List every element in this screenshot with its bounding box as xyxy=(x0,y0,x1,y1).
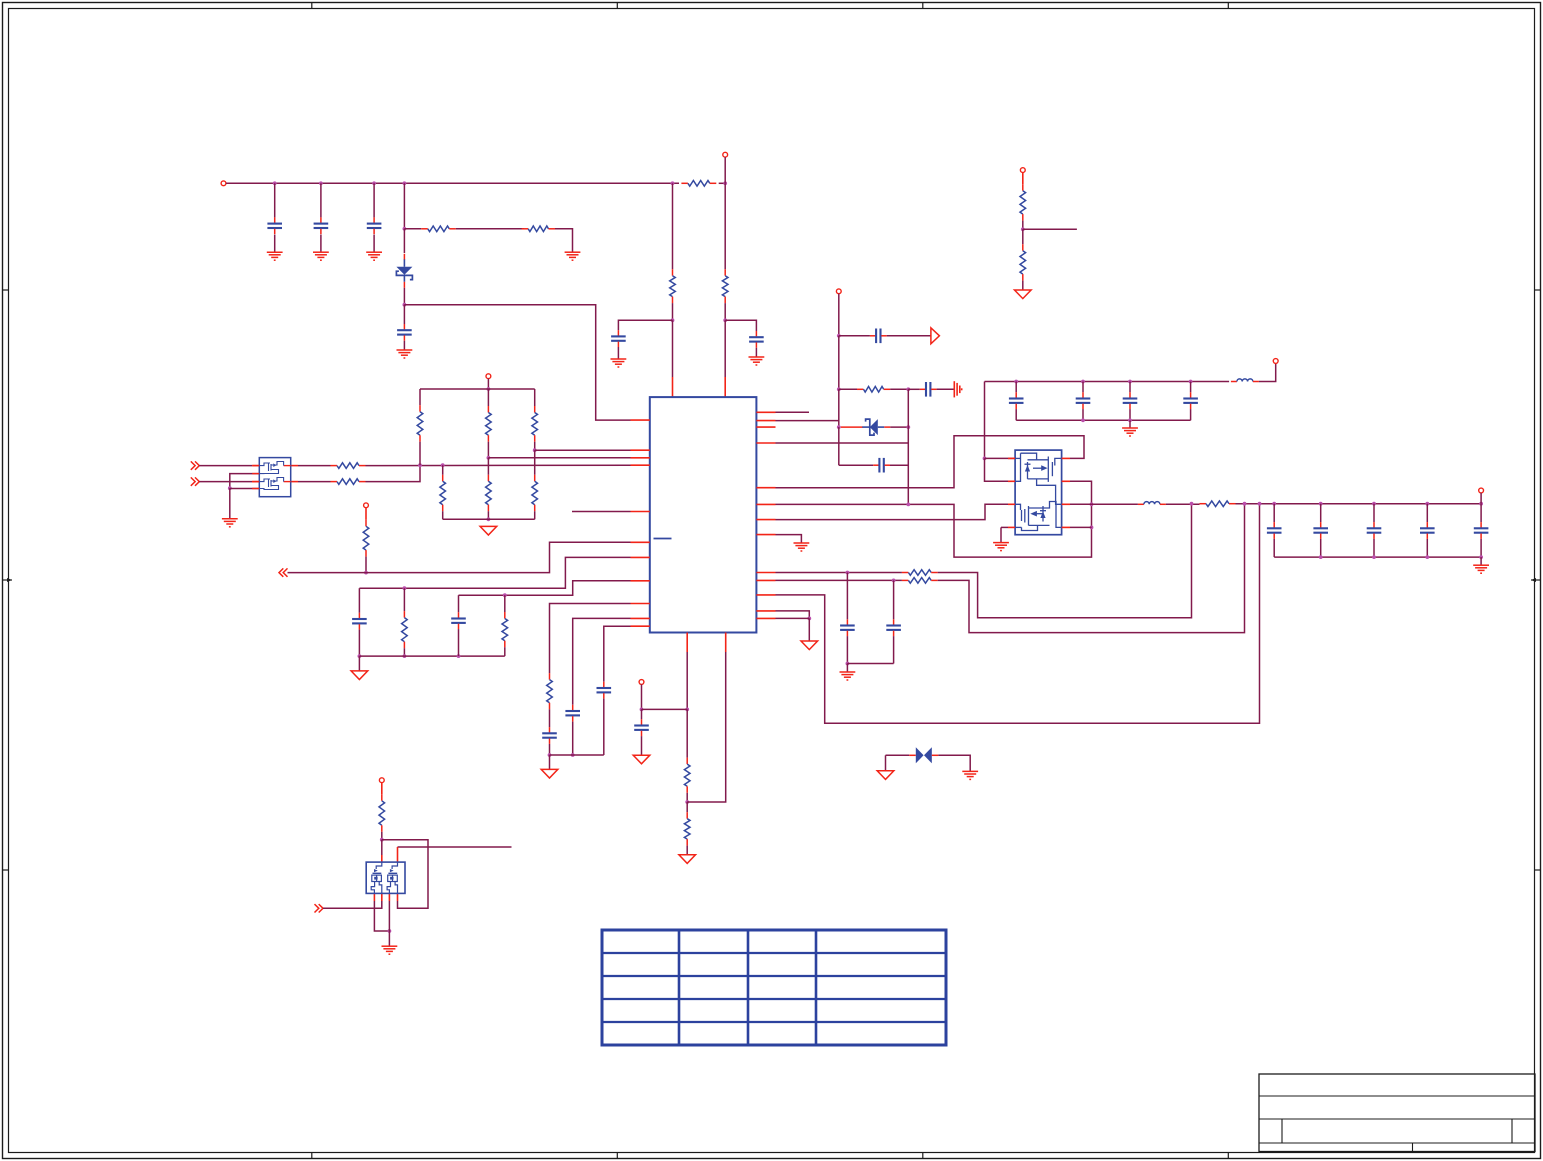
junction xyxy=(403,586,407,590)
wire xyxy=(776,420,839,422)
pin (IC right) xyxy=(756,534,775,536)
pin (IC top 1) xyxy=(672,377,674,397)
capacitor C23 xyxy=(1313,522,1328,539)
wire xyxy=(373,183,375,217)
wire xyxy=(274,235,276,252)
junction xyxy=(487,387,491,391)
resistor R9 xyxy=(902,570,938,576)
junction xyxy=(418,463,422,467)
junction xyxy=(1021,227,1025,231)
junction xyxy=(1128,380,1132,384)
capacitor C16 xyxy=(565,705,580,722)
resistor R3 xyxy=(522,226,555,232)
wire xyxy=(572,722,574,755)
wire xyxy=(555,229,573,252)
pin (IC right) xyxy=(756,411,775,413)
junction xyxy=(1319,555,1323,559)
wire xyxy=(403,183,405,229)
input port >> xyxy=(191,461,200,469)
wire xyxy=(404,228,421,230)
resistor R21 xyxy=(363,520,369,557)
junction xyxy=(1090,502,1094,506)
terminal VIN xyxy=(221,181,226,186)
junction xyxy=(388,929,392,933)
pin (IC right) xyxy=(756,519,775,521)
resistor R4 xyxy=(670,269,676,303)
pin (IC right) xyxy=(756,594,775,596)
wire xyxy=(550,754,604,756)
wire xyxy=(776,611,810,619)
wire xyxy=(1236,503,1482,505)
wire xyxy=(887,335,931,337)
wire xyxy=(403,305,405,324)
wire xyxy=(359,655,504,657)
wire xyxy=(298,465,331,467)
wire xyxy=(298,481,331,483)
junction xyxy=(273,181,277,185)
junction xyxy=(533,448,537,452)
wire xyxy=(323,901,382,908)
wire xyxy=(847,663,893,665)
pin (IC right) xyxy=(756,610,775,612)
pin xyxy=(381,855,383,862)
wire xyxy=(686,709,688,757)
resistor R22 xyxy=(402,611,408,648)
junction xyxy=(837,425,841,429)
wire xyxy=(458,629,460,656)
wire xyxy=(1129,420,1131,427)
wire xyxy=(719,182,726,184)
wire xyxy=(404,305,630,420)
pin xyxy=(252,481,259,483)
border centering arrow right xyxy=(1531,578,1541,582)
pin xyxy=(291,481,298,483)
wire xyxy=(442,511,444,519)
capacitor C9 xyxy=(873,458,890,473)
resistor R13 xyxy=(331,463,366,469)
wire xyxy=(359,557,630,588)
wire xyxy=(1480,504,1482,522)
wire xyxy=(1480,539,1482,557)
junction xyxy=(1258,502,1262,506)
wire xyxy=(686,652,688,709)
border tick xyxy=(1227,3,1229,9)
resistor R14 xyxy=(331,479,366,485)
junction xyxy=(457,654,461,658)
junction xyxy=(906,503,910,507)
wire xyxy=(604,626,631,682)
pin (IC left) xyxy=(631,556,650,558)
wire xyxy=(1426,504,1428,522)
resistor R2 xyxy=(421,226,456,232)
wire xyxy=(487,458,489,475)
pin (IC left) xyxy=(631,541,650,543)
wire xyxy=(776,535,802,543)
pin xyxy=(291,465,298,467)
wire xyxy=(985,457,1016,459)
ground (triangle) xyxy=(351,671,368,680)
capacitor C14 xyxy=(451,612,466,629)
wire xyxy=(938,504,1192,618)
capacitor C13 xyxy=(352,613,367,630)
wire xyxy=(229,488,231,518)
pin (IC left) xyxy=(631,449,650,451)
junction xyxy=(364,571,368,575)
resistor R23 xyxy=(502,612,508,647)
capacitor C24 xyxy=(1367,522,1382,539)
resistor R20 xyxy=(440,475,446,511)
wire xyxy=(724,320,726,377)
wire xyxy=(984,382,986,459)
wire xyxy=(686,802,688,812)
pin (IC left) xyxy=(631,419,650,421)
pin (IC left) xyxy=(631,617,650,619)
junction xyxy=(837,387,841,391)
wire xyxy=(687,652,726,802)
pin (IC left) xyxy=(631,580,650,582)
capacitor C3 xyxy=(367,217,382,234)
pin (IC top 2) xyxy=(724,377,726,397)
junction xyxy=(1189,380,1193,384)
input port >> xyxy=(191,477,200,485)
junction xyxy=(1425,555,1429,559)
junction xyxy=(372,181,376,185)
resistor R15 xyxy=(417,405,423,442)
resistor R7 xyxy=(1020,244,1026,280)
lead xyxy=(381,783,383,795)
capacitor C21 xyxy=(1183,392,1198,409)
wire xyxy=(534,450,536,475)
wire xyxy=(617,347,619,359)
wire xyxy=(573,618,631,704)
capacitor C18 xyxy=(1009,392,1024,409)
wire xyxy=(1259,363,1276,381)
wire xyxy=(458,595,460,612)
border tick xyxy=(3,869,9,871)
ground xyxy=(993,543,1009,551)
wire xyxy=(1190,382,1192,393)
junction xyxy=(319,181,323,185)
IC U1 inner mark xyxy=(654,538,672,540)
wire xyxy=(358,588,360,613)
junction xyxy=(671,318,675,322)
ground (rotated) xyxy=(954,381,961,397)
capacitor C25 xyxy=(1420,522,1435,539)
wire xyxy=(886,754,910,756)
revision table xyxy=(602,930,946,1045)
wire xyxy=(641,709,643,719)
wire xyxy=(672,303,674,320)
wire xyxy=(686,846,688,855)
inductor L1 xyxy=(1231,379,1259,382)
wire xyxy=(381,840,383,855)
junction xyxy=(503,593,507,597)
wire xyxy=(388,901,390,946)
transistor Q2 (dual MOSFET) xyxy=(1008,450,1070,535)
wire xyxy=(403,648,405,656)
wire xyxy=(1480,557,1482,565)
junction xyxy=(1243,502,1247,506)
pin (IC right) xyxy=(756,572,775,574)
wire xyxy=(885,755,887,770)
wire xyxy=(199,481,252,483)
wire xyxy=(320,235,322,252)
junction xyxy=(807,617,811,621)
junction xyxy=(1372,502,1376,506)
transistor Q1 (dual MOSFET) xyxy=(252,458,291,497)
pin xyxy=(397,893,399,901)
pin xyxy=(381,893,383,901)
pin (IC left) xyxy=(631,464,650,466)
wire xyxy=(288,542,631,572)
wire xyxy=(1190,409,1192,420)
wire xyxy=(230,488,259,490)
wire xyxy=(365,557,367,573)
wire xyxy=(358,630,360,657)
junction xyxy=(487,456,491,460)
ground xyxy=(962,771,978,779)
junction xyxy=(640,708,644,712)
pin xyxy=(373,893,375,901)
pin (IC left) xyxy=(631,603,650,605)
capacitor C10 xyxy=(840,619,855,636)
wire xyxy=(403,341,405,350)
border tick xyxy=(922,1153,924,1159)
zener diode D1 xyxy=(396,254,412,288)
wire xyxy=(456,228,524,230)
wire xyxy=(846,573,848,620)
capacitor C15 xyxy=(542,727,557,744)
junction xyxy=(403,303,407,307)
wire xyxy=(549,755,551,769)
inductor L2 xyxy=(1138,502,1166,505)
terminal SYNC xyxy=(364,503,369,508)
junction xyxy=(1479,555,1483,559)
resistor R26 xyxy=(1200,501,1236,507)
wire xyxy=(1129,409,1131,420)
pin (IC right) xyxy=(756,579,775,581)
wire xyxy=(550,604,631,674)
wire xyxy=(534,389,536,406)
resistor R17 xyxy=(486,475,492,511)
wire xyxy=(549,744,551,755)
wire xyxy=(226,182,679,184)
border centering arrow left xyxy=(3,578,13,582)
junction xyxy=(685,708,689,712)
wire xyxy=(487,511,489,519)
wire xyxy=(642,708,688,710)
capacitor C11 xyxy=(886,619,901,636)
wire xyxy=(776,481,1092,557)
wire xyxy=(724,303,726,320)
title block xyxy=(1259,1074,1535,1152)
pin (IC right) xyxy=(756,503,775,505)
wire xyxy=(893,636,895,663)
wire xyxy=(534,511,536,519)
pin (IC right) xyxy=(756,617,775,619)
output port << xyxy=(279,568,288,576)
wire xyxy=(366,464,631,466)
junction xyxy=(1128,418,1132,422)
wire xyxy=(724,157,726,183)
wire xyxy=(1070,526,1092,528)
wire xyxy=(420,388,535,390)
lead xyxy=(1022,173,1024,185)
wire xyxy=(724,183,726,269)
wire xyxy=(1016,419,1190,421)
junction xyxy=(403,181,407,185)
wire xyxy=(459,581,631,595)
capacitor C22 xyxy=(1267,522,1282,539)
resistor R25 xyxy=(379,794,385,832)
wire xyxy=(907,389,909,504)
wire xyxy=(230,474,259,489)
capacitor C26 xyxy=(1474,522,1489,539)
junction xyxy=(571,753,575,757)
transistor Q3 (dual MOSFET) xyxy=(366,862,405,893)
ground (triangle) xyxy=(679,855,696,864)
wire xyxy=(358,656,360,670)
junction xyxy=(403,227,407,231)
wire xyxy=(846,636,848,663)
resistor R19 xyxy=(532,475,538,511)
wire xyxy=(725,320,756,331)
wire xyxy=(1070,503,1138,505)
junction xyxy=(1090,526,1094,530)
pin xyxy=(388,893,390,901)
wire xyxy=(1000,527,1002,542)
ground xyxy=(397,350,413,358)
wire xyxy=(839,388,857,390)
ground (triangle) xyxy=(801,641,818,650)
resistor R24 xyxy=(547,673,553,709)
junction xyxy=(1081,380,1085,384)
resistor R6 xyxy=(1020,184,1026,220)
junction xyxy=(1190,502,1194,506)
resistor R10 xyxy=(902,578,938,584)
wire xyxy=(1166,503,1200,505)
wire xyxy=(776,572,902,574)
wire xyxy=(398,846,512,848)
wire xyxy=(937,388,955,390)
wire xyxy=(776,579,902,581)
junction xyxy=(892,579,896,583)
border tick xyxy=(311,3,313,9)
junction xyxy=(228,486,232,490)
pin (IC right) xyxy=(756,487,775,489)
wire xyxy=(938,504,1245,633)
wire xyxy=(1320,539,1322,557)
ground xyxy=(840,672,856,680)
junction xyxy=(685,800,689,804)
wire xyxy=(504,647,506,656)
wire xyxy=(572,511,631,513)
wire xyxy=(381,832,383,840)
pin (IC right) xyxy=(756,426,775,428)
junction xyxy=(380,838,384,842)
wire xyxy=(403,229,405,253)
wire xyxy=(776,442,909,444)
wire xyxy=(1022,221,1024,230)
capacitor C8 xyxy=(920,382,937,397)
capacitor C17 xyxy=(597,682,612,699)
wire xyxy=(1373,504,1375,522)
junction xyxy=(1272,502,1276,506)
wire xyxy=(893,580,895,619)
wire xyxy=(1480,493,1482,504)
wire xyxy=(838,389,840,427)
resistor R1 xyxy=(681,181,716,187)
resistor R5 xyxy=(722,269,728,303)
wire xyxy=(839,335,870,337)
wire xyxy=(1273,504,1275,522)
junction xyxy=(358,654,362,658)
border tick xyxy=(1535,289,1541,291)
wire xyxy=(549,709,551,727)
wire xyxy=(641,684,643,709)
wire xyxy=(504,595,506,612)
ground xyxy=(267,252,283,260)
wire xyxy=(985,458,1016,481)
ground (triangle) xyxy=(480,526,497,535)
wire xyxy=(908,388,920,390)
capacitor C5 xyxy=(611,330,626,347)
wire xyxy=(890,388,908,390)
off-page arrow xyxy=(931,328,940,344)
wire xyxy=(890,426,908,428)
input port >> xyxy=(315,904,324,912)
resistor R16 xyxy=(486,406,492,442)
TVS diode D3 xyxy=(909,747,938,763)
wire xyxy=(839,464,873,466)
junction xyxy=(1372,555,1376,559)
border tick xyxy=(616,1153,618,1159)
border tick xyxy=(616,3,618,9)
junction xyxy=(441,463,445,467)
wire xyxy=(199,465,252,467)
wire xyxy=(672,183,674,269)
wire xyxy=(1082,409,1084,420)
pin (IC bottom) xyxy=(686,633,688,653)
wire xyxy=(1274,556,1481,558)
wire xyxy=(603,699,605,755)
wire xyxy=(985,381,1230,383)
junction xyxy=(906,425,910,429)
capacitor C2 xyxy=(314,217,329,234)
junction xyxy=(1425,502,1429,506)
junction xyxy=(846,662,850,666)
wire xyxy=(442,465,444,475)
junction xyxy=(1319,502,1323,506)
ground (triangle) xyxy=(541,769,558,778)
wire xyxy=(1015,382,1017,393)
wire xyxy=(776,411,810,413)
lead xyxy=(365,508,367,520)
wire xyxy=(487,379,489,389)
wire xyxy=(776,436,1085,488)
capacitor C4 xyxy=(397,324,412,341)
terminal BST xyxy=(1273,359,1278,364)
terminal SS xyxy=(836,289,841,294)
capacitor C7 xyxy=(870,329,887,344)
capacitor C1 xyxy=(267,217,282,234)
ground (triangle) xyxy=(1015,290,1032,299)
wire xyxy=(366,465,421,481)
ground xyxy=(222,519,238,527)
wire xyxy=(374,901,389,931)
ground (triangle) xyxy=(877,771,894,780)
ground xyxy=(1473,565,1489,573)
